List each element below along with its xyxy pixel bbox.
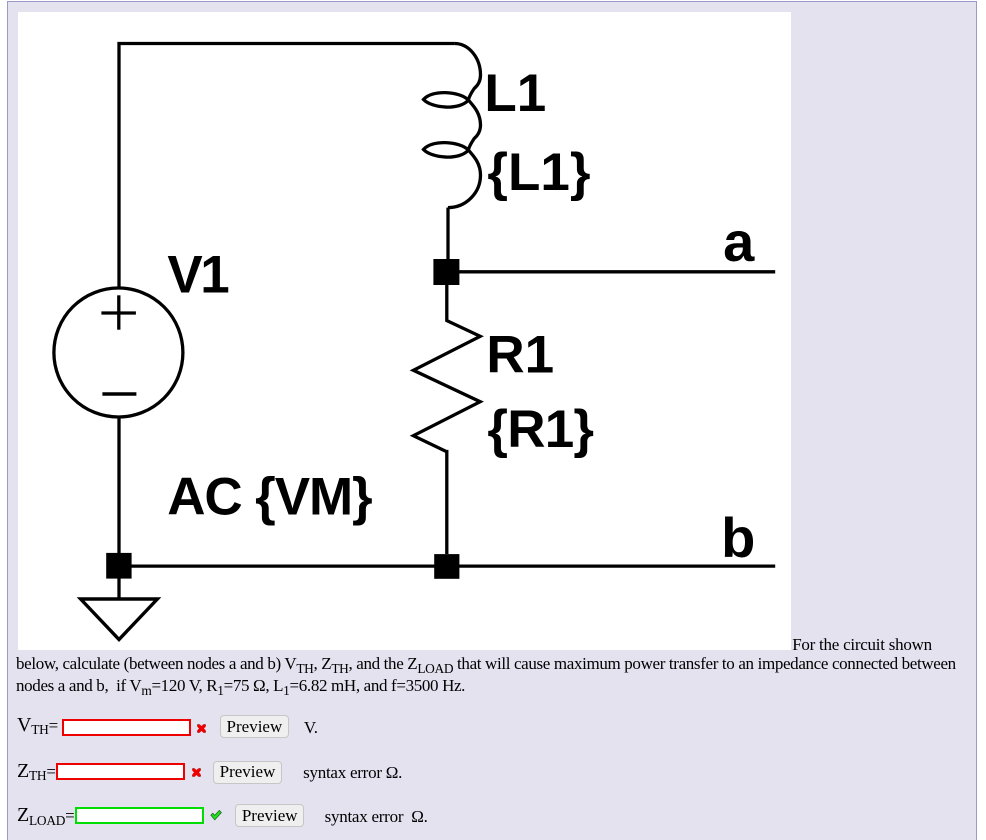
svg-text:{L1}: {L1} (487, 143, 590, 202)
svg-text:{R1}: {R1} (487, 400, 593, 459)
svg-text:a: a (723, 210, 755, 273)
svg-text:b: b (721, 506, 755, 569)
svg-text:AC {VM}: AC {VM} (167, 468, 372, 527)
svg-text:R1: R1 (486, 325, 554, 384)
svg-text:V1: V1 (167, 245, 228, 304)
svg-text:L1: L1 (484, 64, 546, 123)
